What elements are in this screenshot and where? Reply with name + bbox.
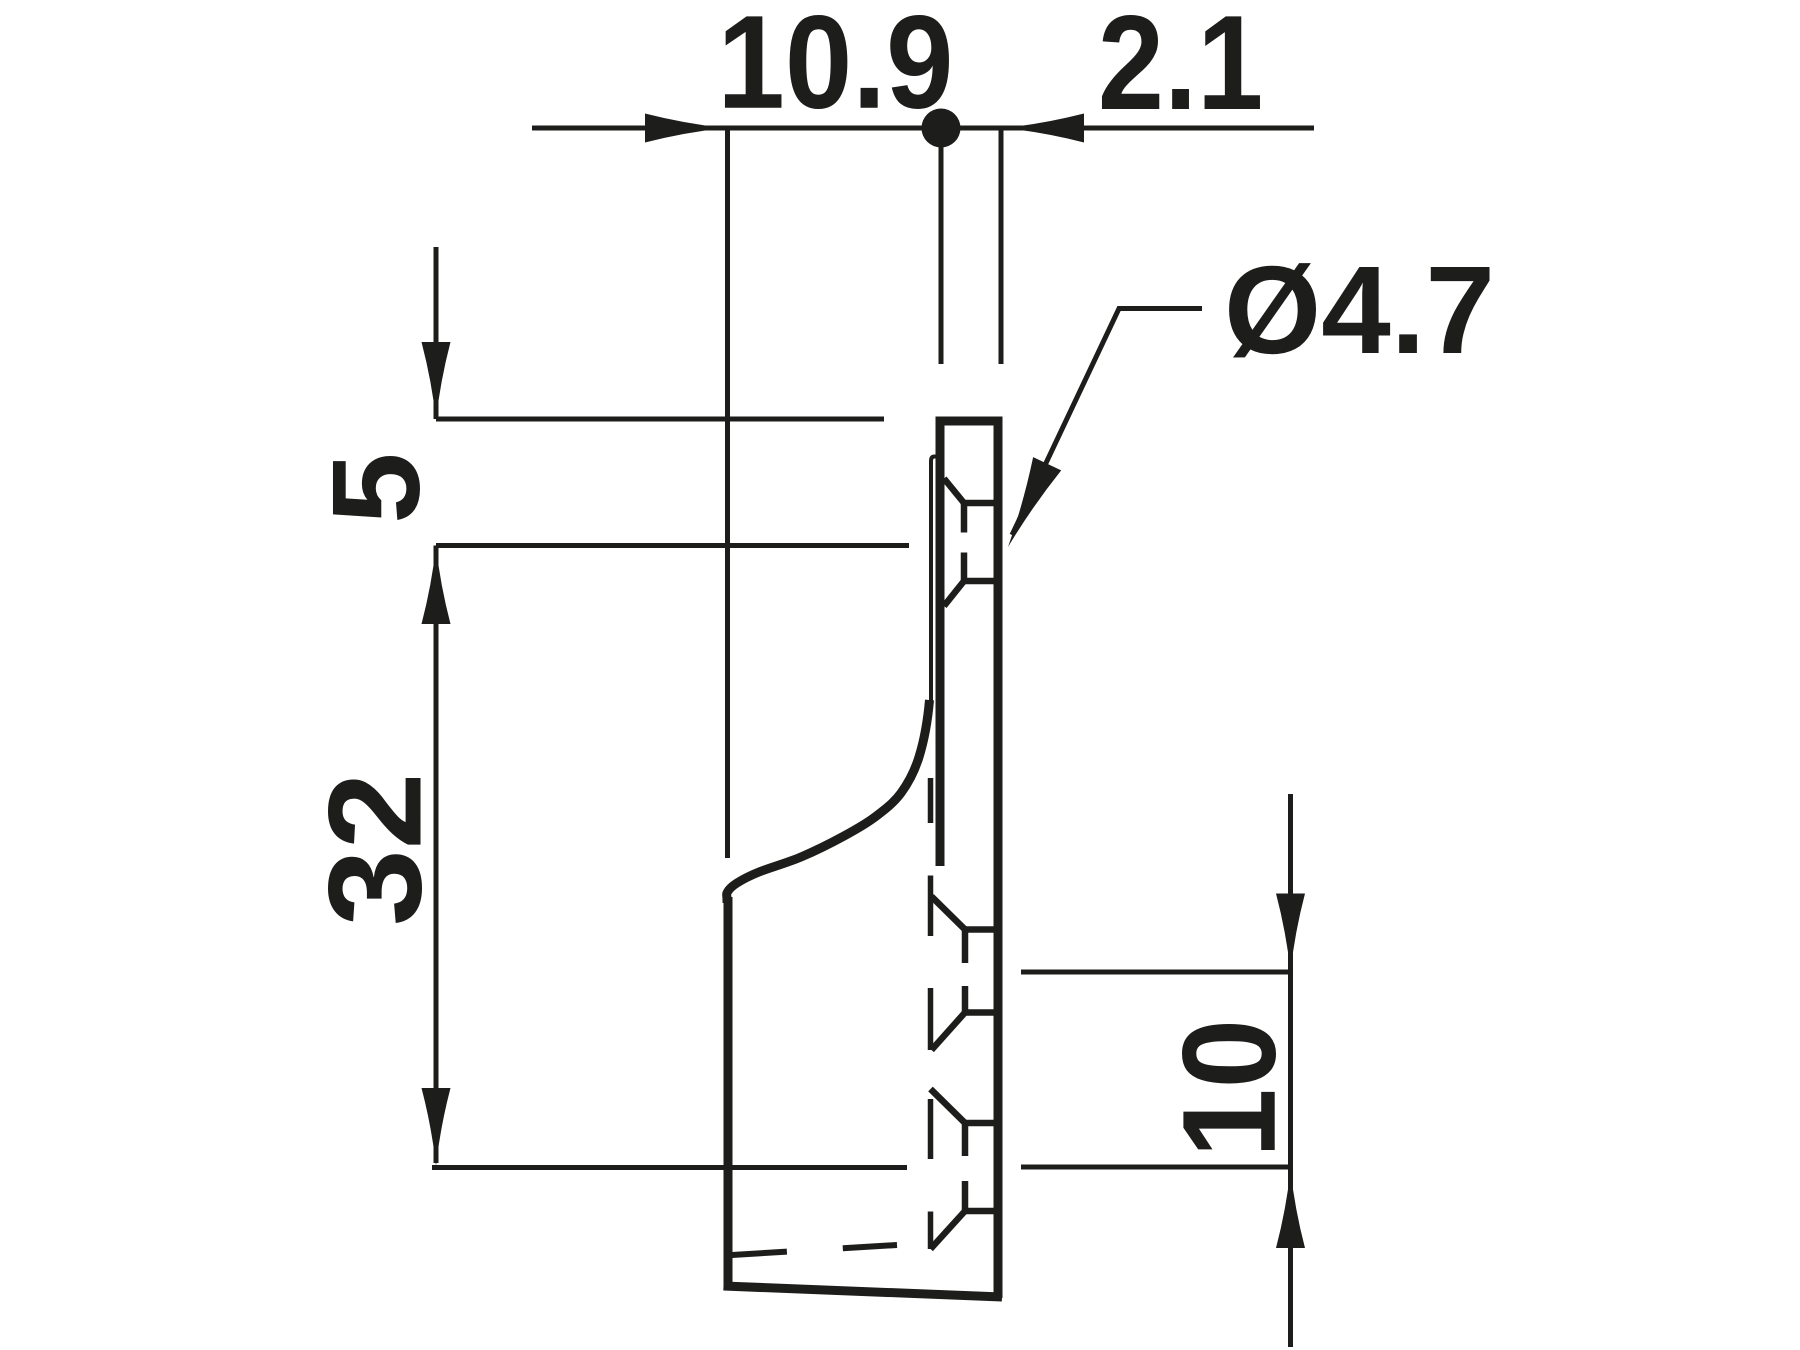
- arrowhead 5 bottom / 32 top (points up): [422, 546, 451, 624]
- dimension 5: vertical dim line upper part: [434, 247, 439, 419]
- arrowhead 5 top (points down): [422, 342, 451, 420]
- extension line y=1167 left: [432, 1165, 907, 1170]
- countersunk hole 3 (bottom): [931, 1089, 997, 1249]
- dimension text 32 (rotated): [328, 778, 422, 923]
- arrowhead 2.1 (points left): [1004, 114, 1084, 143]
- hook lip (thin upright tongue): [931, 457, 939, 706]
- dimension text 5 (rotated): [333, 456, 420, 520]
- wall plate outline: left edge, top edge, right edge: [936, 421, 1003, 1298]
- dimension text 10 (rotated): [1182, 1024, 1276, 1150]
- base block left edge: [724, 897, 733, 1288]
- hidden line: bottom bevel back edge (dashed): [732, 1245, 897, 1255]
- extension line mid (x=941): [939, 128, 944, 364]
- dimension line 10.9/2.1: [532, 126, 1314, 131]
- dimension text 10.9: [725, 15, 949, 109]
- extension line y=545 (hole 1 centre): [436, 543, 909, 548]
- extension line y=1167 right: [1021, 1165, 1292, 1170]
- countersunk hole 2 (middle): [932, 897, 997, 1051]
- hook S-curve (top surface of base): [727, 700, 930, 903]
- arrowhead 10 bottom (points up): [1276, 1170, 1305, 1248]
- dimension 10: vertical dim line: [1288, 794, 1293, 1347]
- arrowhead of leader (points down-left at hole 1): [994, 457, 1061, 553]
- dimension text 2.1: [1102, 15, 1260, 109]
- extension line y=419: [436, 417, 884, 422]
- arrowhead 32 bottom (points down): [422, 1088, 451, 1166]
- countersunk hole 1 (top, in plate): [944, 479, 995, 607]
- junction dot between 10.9 and 2.1: [922, 109, 961, 148]
- arrowhead 10.9 left (points right): [645, 114, 725, 143]
- dimension text diameter 4.7: [1229, 263, 1489, 357]
- leader line for diameter 4.7: [1012, 309, 1202, 536]
- dimension 5/32: vertical dim line lower part: [434, 546, 439, 1164]
- extension line y=972 right: [1021, 970, 1292, 975]
- extension line right (x=1001): [999, 128, 1004, 364]
- base block bottom edge (slanted): [724, 1286, 1003, 1297]
- arrowhead 10 top (points down): [1276, 894, 1305, 972]
- extension line left (x=727): [725, 126, 730, 858]
- hidden line: lip/slot edge continued (dashed): [928, 778, 934, 1249]
